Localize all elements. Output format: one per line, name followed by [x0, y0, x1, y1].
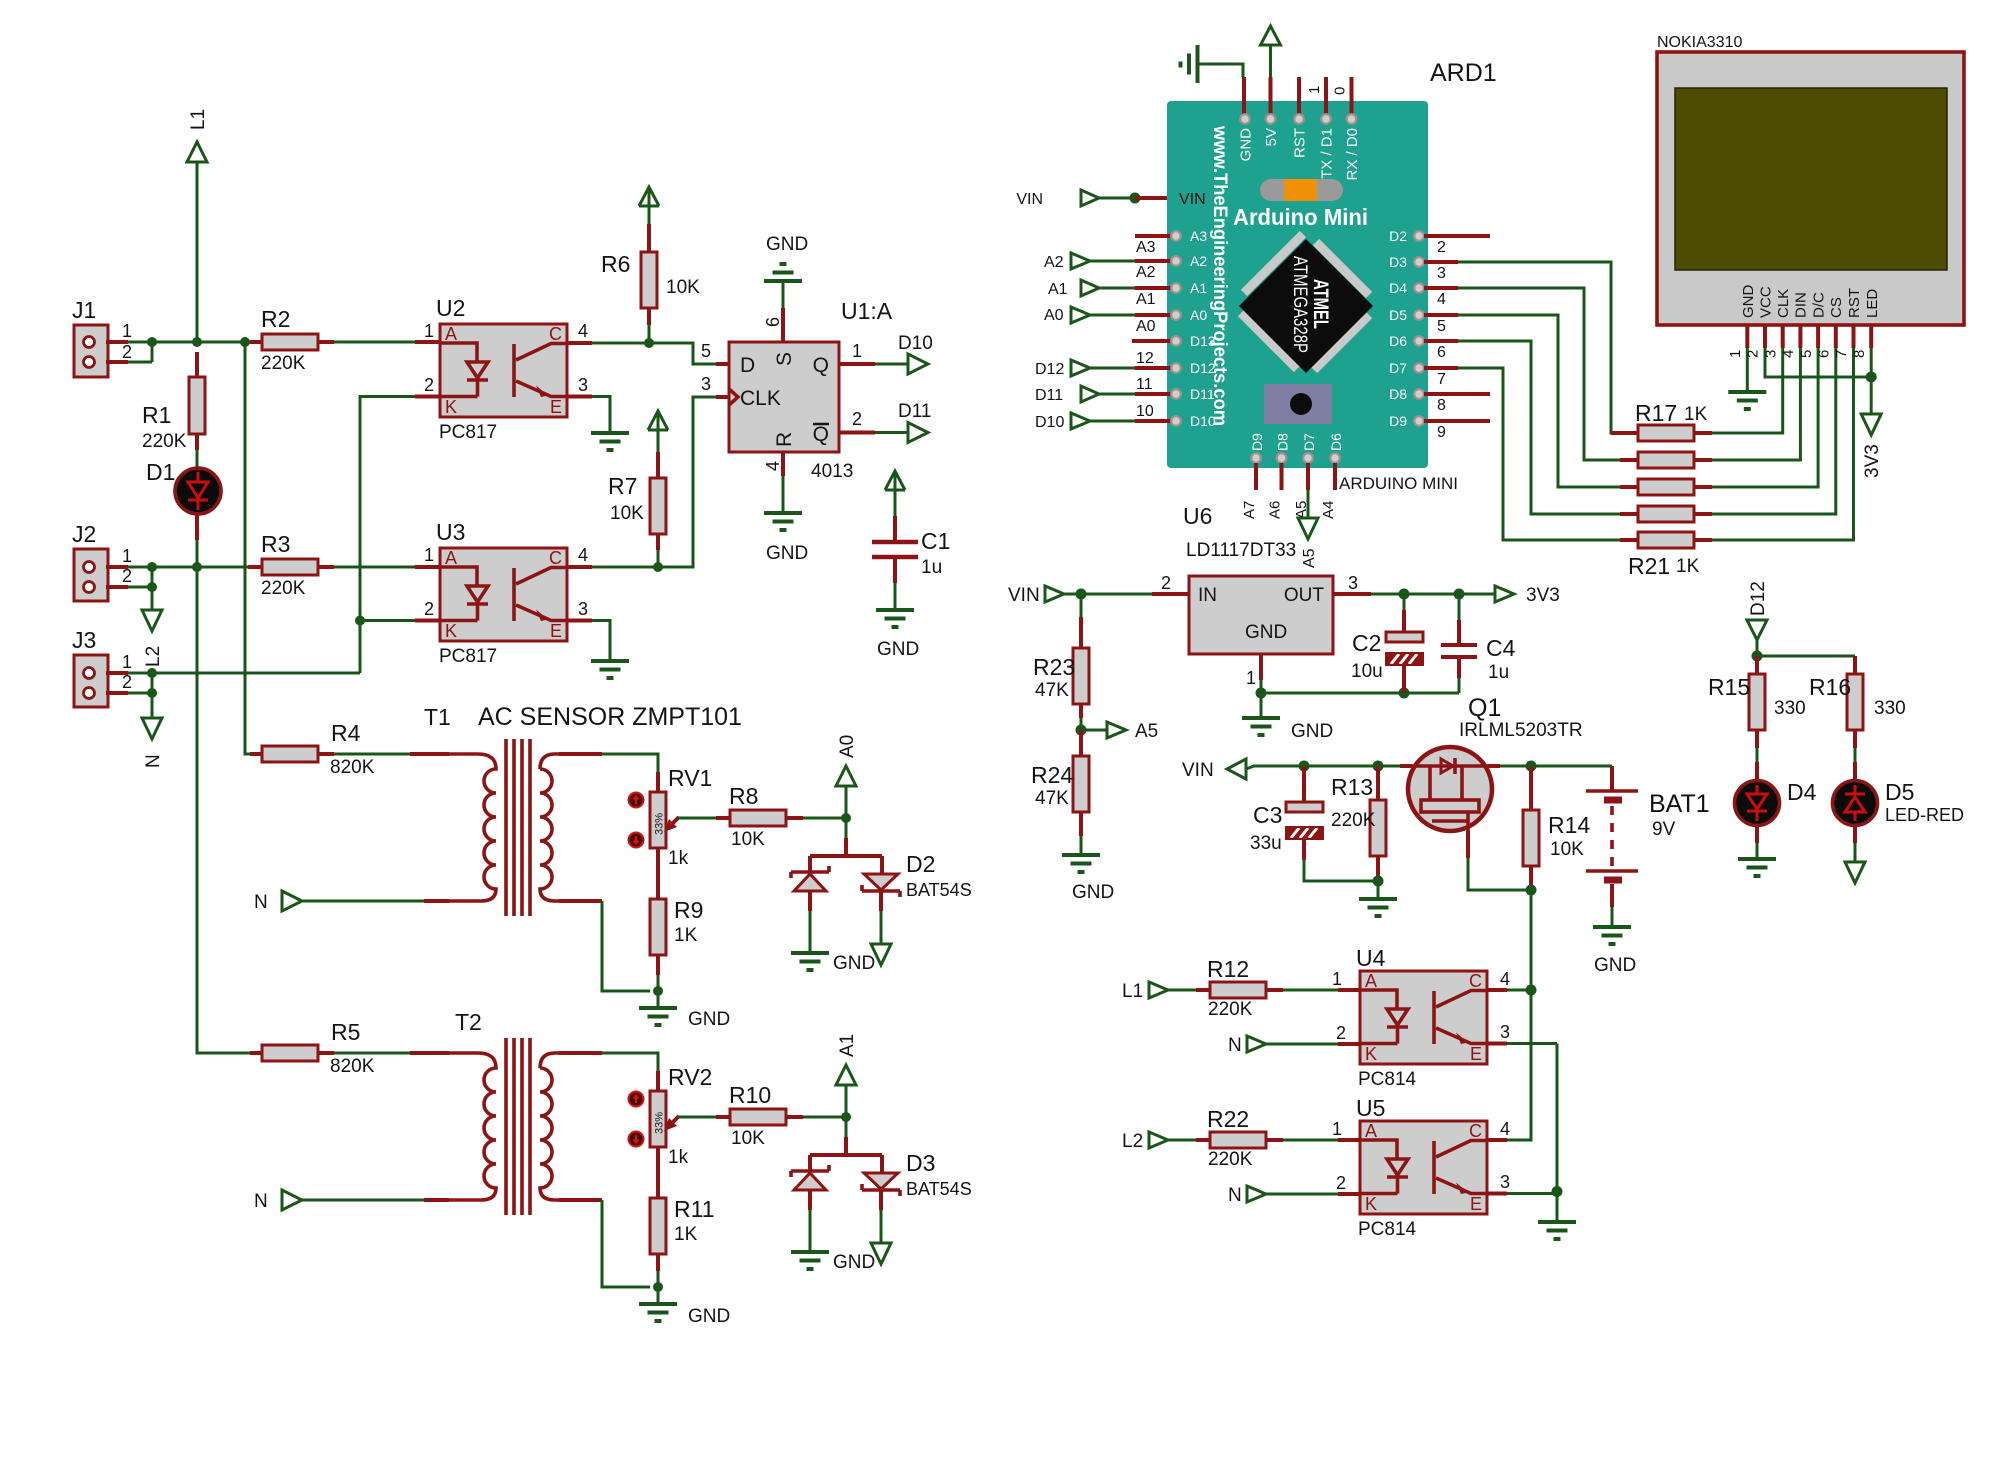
- svg-text:D11: D11: [1190, 386, 1215, 402]
- node R14 bottom junction: [1526, 885, 1537, 896]
- svg-text:C3: C3: [1253, 802, 1282, 828]
- svg-text:A5: A5: [1301, 548, 1318, 568]
- svg-text:R23: R23: [1033, 654, 1075, 680]
- wire J1 pins: [128, 342, 152, 362]
- svg-text:R5: R5: [331, 1019, 360, 1045]
- wire R4 to T1: [334, 753, 410, 756]
- node D12 terminal: [1035, 350, 1216, 378]
- arduino top pads: [1238, 114, 1362, 180]
- resistor R23: [1033, 594, 1089, 718]
- svg-text:3V3: 3V3: [1862, 444, 1883, 478]
- ground U4 U5: [1538, 1222, 1576, 1239]
- svg-text:D10: D10: [1190, 413, 1216, 429]
- chip ATMEGA328P: [1239, 234, 1373, 373]
- pin RST stub: [1297, 77, 1301, 114]
- wire D4 to R18: [1458, 288, 1620, 460]
- wire U2 cathode: [415, 395, 440, 399]
- svg-text:1: 1: [852, 341, 862, 361]
- svg-text:D11: D11: [898, 401, 931, 422]
- svg-text:A2: A2: [1190, 253, 1207, 269]
- svg-text:7: 7: [1833, 350, 1850, 358]
- wire R1 to D1: [196, 450, 199, 468]
- svg-text:R14: R14: [1548, 812, 1590, 838]
- wire R11 to ground node: [657, 1271, 660, 1287]
- ground below U1: [764, 513, 802, 530]
- svg-text:D: D: [740, 354, 755, 377]
- svg-text:DIN: DIN: [1793, 292, 1810, 318]
- svg-text:33%: 33%: [654, 1112, 666, 1134]
- optocoupler U2: [424, 295, 588, 443]
- svg-text:8: 8: [1851, 350, 1868, 358]
- node D11 terminal: [1035, 376, 1215, 404]
- wire CS to R20: [1712, 348, 1836, 514]
- wire emitters bus: [1556, 1044, 1559, 1192]
- svg-text:D6: D6: [1328, 433, 1344, 451]
- pin D6 wire: [1424, 339, 1458, 343]
- svg-text:4: 4: [1437, 291, 1446, 308]
- node VIN terminal: [1016, 190, 1205, 208]
- svg-text:J1: J1: [72, 297, 96, 323]
- pin 6 CS lcd: [1834, 325, 1838, 348]
- svg-text:A7: A7: [1241, 501, 1258, 519]
- pin D13 stub: [1132, 333, 1216, 349]
- svg-text:GND: GND: [766, 543, 808, 564]
- svg-text:GND: GND: [1291, 721, 1333, 742]
- svg-text:R4: R4: [331, 720, 361, 746]
- svg-text:ATMEL: ATMEL: [1309, 279, 1332, 329]
- ground BAT1: [1593, 927, 1631, 944]
- svg-text:T2: T2: [455, 1009, 482, 1035]
- wire emitters to ground: [1556, 1192, 1559, 1223]
- node D12 terminal: [1747, 581, 1769, 656]
- ground C1: [876, 610, 914, 627]
- wire R5 to T2: [334, 1052, 410, 1055]
- resistor R4: [250, 720, 375, 778]
- pin A5 stub: [1306, 463, 1310, 490]
- resistor R21: [1620, 532, 1712, 579]
- wire U2 collector node: [567, 341, 592, 345]
- mosfet Q1 IRLML5203TR: [1408, 694, 1583, 831]
- svg-text:D7: D7: [1389, 360, 1407, 376]
- svg-text:D7: D7: [1301, 433, 1317, 451]
- flip-flop U1:A: [729, 298, 893, 482]
- svg-text:3: 3: [578, 599, 588, 619]
- svg-text:LD1117DT33: LD1117DT33: [1186, 540, 1296, 561]
- node VIN terminal U6: [1008, 585, 1152, 606]
- svg-text:D9: D9: [1389, 413, 1407, 429]
- svg-text:R7: R7: [608, 473, 637, 499]
- ground arduino top: [1181, 45, 1245, 114]
- svg-text:1K: 1K: [1676, 556, 1700, 577]
- svg-text:12: 12: [1136, 350, 1154, 367]
- pin U5 collector: [1487, 1138, 1507, 1142]
- resistor R2: [245, 306, 334, 374]
- svg-text:3: 3: [701, 374, 711, 394]
- node C3 junction: [1299, 761, 1310, 772]
- svg-text:L2: L2: [1122, 1131, 1143, 1152]
- node VIN terminal Q1: [1182, 759, 1400, 781]
- svg-text:3: 3: [1500, 1172, 1510, 1192]
- lcd NOKIA3310: [1657, 34, 1964, 325]
- pin A6 stub: [1280, 463, 1284, 490]
- svg-text:A1: A1: [1136, 291, 1156, 308]
- svg-text:11: 11: [1136, 376, 1153, 393]
- node L2 terminal: [142, 587, 164, 667]
- resistor R16: [1809, 674, 1906, 748]
- svg-text:GND: GND: [1594, 955, 1636, 976]
- svg-text:R12: R12: [1207, 956, 1249, 982]
- svg-text:A0: A0: [837, 735, 858, 758]
- svg-text:A0: A0: [1044, 307, 1064, 324]
- svg-text:D2: D2: [906, 851, 935, 877]
- wire R9 to ground node: [657, 975, 660, 991]
- svg-text:R17: R17: [1635, 400, 1677, 426]
- node D11 terminal: [839, 401, 931, 443]
- svg-text:10K: 10K: [666, 277, 700, 298]
- svg-text:BAT54S: BAT54S: [906, 880, 972, 900]
- wire BAT1 to ground: [1611, 907, 1614, 927]
- svg-text:VIN: VIN: [1008, 585, 1040, 606]
- node N terminal: [142, 693, 164, 768]
- node A1 terminal: [1048, 280, 1207, 308]
- capacitor C4: [1441, 594, 1516, 693]
- wire L1 feed to R4: [245, 342, 250, 754]
- svg-text:D10: D10: [1035, 414, 1064, 431]
- svg-text:CLK: CLK: [740, 387, 781, 410]
- wire R15 to D4: [1756, 748, 1759, 762]
- wire D12 to R16: [1757, 655, 1855, 658]
- svg-text:PC817: PC817: [439, 422, 497, 443]
- svg-text:RST: RST: [1846, 288, 1863, 318]
- node GND terminal D3: [833, 1190, 891, 1273]
- resistor R6: [601, 206, 700, 325]
- regulator U6 LD1117DT33: [1183, 503, 1333, 654]
- svg-text:L2: L2: [143, 646, 164, 667]
- svg-text:A4: A4: [1320, 501, 1337, 519]
- wire lcd gnd: [1746, 348, 1749, 392]
- connector J3: [72, 627, 132, 707]
- wire to U1 CLK pin: [658, 397, 716, 567]
- node C4 junction: [1454, 589, 1465, 600]
- ground above U1: [764, 264, 802, 281]
- svg-text:3V3: 3V3: [1526, 585, 1560, 606]
- svg-text:9: 9: [1437, 424, 1446, 441]
- svg-text:2: 2: [122, 672, 132, 692]
- connector J2: [72, 521, 132, 601]
- svg-text:10K: 10K: [610, 503, 644, 524]
- ground U3 emitter: [591, 661, 629, 678]
- wire J3 to U3 cathode: [152, 672, 360, 675]
- wire R10 to A1 node: [803, 1116, 846, 1119]
- pin TX stub: [1324, 77, 1328, 114]
- svg-text:GND: GND: [1072, 882, 1114, 903]
- svg-text:4: 4: [578, 321, 588, 341]
- resistor R22: [1196, 1106, 1283, 1170]
- wire L1 bus: [152, 341, 245, 344]
- wire J2 pins: [128, 567, 152, 587]
- svg-text:D4: D4: [1787, 779, 1817, 805]
- svg-text:R6: R6: [601, 251, 630, 277]
- svg-text:PC814: PC814: [1358, 1069, 1417, 1090]
- wire D2 left to ground: [808, 891, 812, 911]
- ground U2 emitter: [591, 433, 629, 450]
- svg-text:1k: 1k: [668, 848, 689, 869]
- svg-text:N: N: [1228, 1035, 1242, 1056]
- svg-text:RV1: RV1: [668, 765, 712, 791]
- svg-text:2: 2: [424, 375, 434, 395]
- node D12 junction: [1752, 651, 1763, 662]
- pin D9 stub: [1424, 419, 1490, 423]
- svg-text:R8: R8: [729, 783, 758, 809]
- wire R8 to A0 node: [803, 817, 846, 820]
- svg-text:D9: D9: [1249, 433, 1265, 451]
- svg-text:R21: R21: [1628, 553, 1670, 579]
- svg-text:CLK: CLK: [1775, 289, 1792, 318]
- svg-text:IN: IN: [1198, 585, 1217, 606]
- svg-text:R22: R22: [1207, 1106, 1249, 1132]
- pin 4 DIN lcd: [1798, 325, 1802, 348]
- svg-text:D8: D8: [1389, 386, 1407, 402]
- wire U1 S pin: [781, 308, 785, 342]
- svg-text:R15: R15: [1708, 674, 1750, 700]
- svg-text:D12: D12: [1035, 361, 1064, 378]
- svg-text:3: 3: [1500, 1022, 1510, 1042]
- svg-text:Q: Q: [813, 354, 829, 377]
- pot RV2: [629, 1064, 713, 1168]
- power 5V above R7: [648, 411, 668, 430]
- wire D5 to R19: [1458, 315, 1620, 487]
- svg-text:D12: D12: [1748, 581, 1769, 616]
- svg-text:NOKIA3310: NOKIA3310: [1657, 34, 1742, 51]
- svg-text:U6: U6: [1183, 503, 1212, 529]
- wire J2 row to R3: [152, 566, 248, 569]
- node J3 pin1 junction: [147, 668, 157, 678]
- svg-text:PC814: PC814: [1358, 1219, 1417, 1240]
- svg-text:D3: D3: [906, 1150, 935, 1176]
- resistor R5: [250, 1019, 375, 1077]
- svg-text:47K: 47K: [1035, 788, 1069, 809]
- svg-text:GND: GND: [1740, 285, 1757, 319]
- svg-text:BAT1: BAT1: [1649, 790, 1710, 818]
- svg-text:www.TheEngineeringProjects.com: www.TheEngineeringProjects.com: [1209, 125, 1230, 426]
- optocoupler U5: [1356, 1095, 1487, 1240]
- svg-text:C4: C4: [1486, 635, 1516, 661]
- resistor R13: [1331, 766, 1386, 881]
- wire A0 to D2: [845, 818, 848, 838]
- svg-text:1u: 1u: [1488, 662, 1509, 683]
- svg-text:N: N: [143, 754, 164, 768]
- wire D3 left to ground: [808, 1190, 812, 1210]
- wire D7 to R21: [1458, 368, 1620, 540]
- wire L2 feed to R5: [197, 567, 250, 1053]
- power 5V above R6: [639, 187, 659, 206]
- svg-text:2: 2: [1161, 573, 1171, 593]
- pin U5 emitter: [1487, 1192, 1507, 1196]
- svg-text:3: 3: [1437, 265, 1446, 282]
- resistor R15: [1708, 656, 1806, 748]
- svg-text:4: 4: [578, 545, 588, 565]
- svg-text:A3: A3: [1136, 239, 1156, 256]
- pin D2 stub: [1424, 234, 1490, 238]
- node U4 collector junction: [1526, 985, 1537, 996]
- svg-text:5: 5: [701, 341, 711, 361]
- svg-text:RV2: RV2: [668, 1064, 712, 1090]
- svg-text:1: 1: [1306, 86, 1323, 94]
- svg-text:R2: R2: [261, 306, 290, 332]
- svg-text:D11: D11: [1035, 387, 1063, 404]
- wire R3 to U3: [334, 566, 415, 569]
- svg-text:2: 2: [1437, 239, 1446, 256]
- node 3V3 terminal U6: [1495, 585, 1560, 606]
- svg-text:A2: A2: [1044, 254, 1064, 271]
- ground R13: [1359, 899, 1397, 916]
- svg-text:T1: T1: [424, 704, 451, 730]
- power 5V arduino: [1261, 26, 1281, 114]
- svg-text:1K: 1K: [1684, 404, 1708, 425]
- resistor R8: [716, 783, 803, 850]
- svg-text:GND: GND: [1238, 128, 1255, 162]
- svg-text:D3: D3: [1389, 254, 1407, 270]
- svg-text:D8: D8: [1275, 433, 1291, 451]
- node D10 terminal: [839, 333, 933, 374]
- svg-text:U1:A: U1:A: [841, 298, 893, 324]
- svg-text:5: 5: [1798, 350, 1815, 358]
- node A5 junction: [1076, 725, 1087, 736]
- svg-text:10u: 10u: [1351, 661, 1383, 682]
- svg-text:33u: 33u: [1250, 833, 1282, 854]
- svg-text:ARD1: ARD1: [1430, 59, 1497, 87]
- svg-text:GND: GND: [766, 234, 808, 255]
- wire Q1 to BAT1: [1400, 764, 1500, 768]
- node T1 ground junction: [653, 986, 663, 996]
- pin D7 wire: [1424, 366, 1458, 370]
- svg-text:10K: 10K: [731, 829, 765, 850]
- wire C3 bottom: [1304, 860, 1378, 881]
- svg-text:1: 1: [1246, 668, 1256, 688]
- pin A3: [1135, 228, 1207, 256]
- svg-text:R24: R24: [1031, 762, 1073, 788]
- pin RX stub: [1350, 77, 1354, 114]
- svg-text:D12: D12: [1190, 360, 1216, 376]
- node L1 terminal U4: [1122, 981, 1196, 1002]
- svg-text:2: 2: [852, 409, 862, 429]
- node N terminal U5: [1228, 1173, 1360, 1206]
- svg-text:33%: 33%: [654, 813, 666, 835]
- svg-text:J2: J2: [72, 521, 96, 547]
- svg-text:U2: U2: [436, 295, 465, 321]
- wire U3 emitter to ground: [567, 619, 592, 623]
- svg-text:VCC: VCC: [1758, 286, 1775, 318]
- pin 2 VCC lcd: [1763, 325, 1767, 348]
- capacitor C1: [872, 490, 950, 583]
- wire R23 to A5 node: [1080, 718, 1083, 730]
- pin U4 collector: [1487, 988, 1507, 992]
- wire R12 to U4: [1283, 989, 1338, 992]
- svg-text:220K: 220K: [1331, 810, 1376, 831]
- svg-text:GND: GND: [833, 953, 875, 974]
- node A5 terminal: [1081, 721, 1158, 742]
- node J3 pin2 junction: [147, 688, 157, 698]
- svg-text:4: 4: [1500, 1119, 1510, 1139]
- node A1 terminal: [836, 1034, 858, 1117]
- svg-text:6: 6: [763, 317, 783, 327]
- svg-text:5: 5: [1437, 318, 1446, 335]
- svg-text:LED: LED: [1864, 289, 1881, 318]
- wire to ground T1: [657, 991, 660, 1008]
- svg-text:U4: U4: [1356, 945, 1386, 971]
- wire VCC to 3V3: [1765, 348, 1871, 377]
- svg-text:5V: 5V: [1263, 128, 1280, 146]
- svg-text:R1: R1: [142, 402, 171, 428]
- svg-text:C2: C2: [1352, 630, 1381, 656]
- svg-text:2: 2: [424, 599, 434, 619]
- svg-text:VIN: VIN: [1179, 191, 1206, 208]
- svg-text:PC817: PC817: [439, 646, 497, 667]
- svg-text:330: 330: [1774, 698, 1806, 719]
- wire J3 pins: [128, 673, 152, 693]
- svg-text:D10: D10: [898, 333, 933, 354]
- resistor R24: [1031, 730, 1089, 836]
- node J1 junction: [147, 337, 157, 347]
- svg-text:D2: D2: [1389, 228, 1407, 244]
- svg-text:10: 10: [1136, 403, 1154, 420]
- wire R13 to ground: [1377, 881, 1380, 899]
- svg-text:9V: 9V: [1652, 819, 1676, 840]
- led D5: [1833, 779, 1965, 826]
- svg-text:Q: Q: [813, 423, 829, 446]
- pin A4 stub: [1333, 463, 1337, 490]
- node U6 gnd junction: [1256, 688, 1267, 699]
- svg-text:S: S: [773, 352, 796, 366]
- svg-text:TX / D1: TX / D1: [1319, 128, 1336, 179]
- ground T2: [639, 1304, 677, 1321]
- resistor R18: [1620, 452, 1712, 468]
- svg-text:R16: R16: [1809, 674, 1851, 700]
- wire RV2 wiper to R10: [678, 1116, 716, 1119]
- svg-text:A1: A1: [837, 1034, 858, 1057]
- arduino board ARD1: [1167, 59, 1497, 468]
- svg-text:U5: U5: [1356, 1095, 1385, 1121]
- node A0 terminal: [836, 735, 858, 818]
- optocoupler U3: [424, 519, 588, 667]
- resistor R1: [142, 352, 205, 452]
- capacitor C2: [1351, 594, 1423, 693]
- resistor R20: [1620, 506, 1712, 522]
- node R13 junction: [1373, 761, 1384, 772]
- node C2 junction: [1399, 589, 1410, 600]
- svg-text:D5: D5: [1389, 307, 1407, 323]
- resistor R17: [1611, 400, 1712, 441]
- svg-text:1: 1: [424, 545, 434, 565]
- svg-text:RX / D0: RX / D0: [1344, 128, 1361, 181]
- arduino right pads D2-D9: [1389, 228, 1424, 429]
- resistor R3: [248, 531, 334, 599]
- pot RV1: [629, 765, 713, 869]
- wire T2 secondary top to RV2: [559, 1051, 602, 1055]
- svg-text:2: 2: [1336, 1023, 1346, 1043]
- wire gnd bus to caps: [1261, 692, 1459, 695]
- svg-text:1: 1: [1332, 969, 1342, 989]
- svg-text:VIN: VIN: [1182, 760, 1214, 781]
- svg-text:0: 0: [1332, 87, 1349, 95]
- wire collectors bus: [1530, 990, 1533, 1138]
- svg-text:ATMEGA328P: ATMEGA328P: [1289, 256, 1310, 353]
- svg-text:RST: RST: [1292, 128, 1309, 158]
- pin D5 wire: [1424, 313, 1458, 317]
- resistor R9: [650, 864, 703, 975]
- wire D4 to ground: [1755, 825, 1759, 843]
- wire D3 to R17: [1458, 262, 1617, 433]
